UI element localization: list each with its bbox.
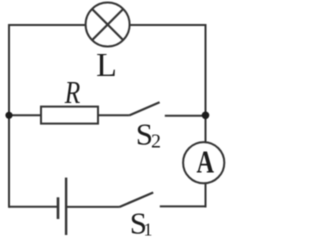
- svg-text:R: R: [64, 74, 81, 110]
- svg-text:L: L: [96, 47, 117, 84]
- wire resistor to S2: [98, 114, 129, 116]
- wire battery to S1: [67, 206, 120, 208]
- wire left vertical: [8, 24, 10, 208]
- ammeter A body: [183, 142, 224, 183]
- node junction left: [5, 112, 12, 119]
- wire right vertical upper: [205, 24, 207, 142]
- switch S1 right contact wire: [160, 205, 206, 207]
- svg-text:A: A: [197, 144, 215, 180]
- battery cell short plate: [57, 197, 60, 219]
- wire top-left segment: [9, 24, 86, 26]
- switch S2 right contact wire: [165, 115, 206, 117]
- wire top-right segment: [130, 24, 206, 26]
- switch S2 blade: [129, 102, 159, 115]
- resistor R1 body: [41, 107, 98, 124]
- wire bottom-left segment: [9, 206, 58, 208]
- battery cell long plate: [65, 178, 67, 235]
- wire middle branch left: [9, 114, 41, 116]
- lamp L: [86, 3, 130, 47]
- node junction right: [202, 112, 210, 120]
- switch S1 blade: [119, 193, 153, 208]
- wire right vertical lower: [205, 183, 207, 207]
